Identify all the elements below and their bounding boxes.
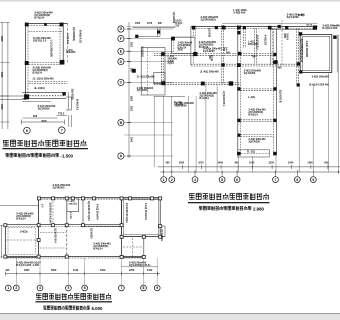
svg-text:B:4@14: B:4@14	[200, 97, 210, 100]
column B axis6 second	[237, 31, 240, 34]
hollow column C3	[65, 197, 68, 200]
column B25	[135, 35, 138, 38]
axis bubble 4 plan C	[37, 285, 43, 291]
plan A top annotation text	[34, 10, 53, 19]
plan C below text 1	[16, 262, 41, 268]
plan B ext line f	[298, 85, 300, 172]
column B26	[157, 30, 160, 33]
plan B stem top text	[244, 69, 262, 75]
svg-text:3340: 3340	[130, 137, 133, 143]
plan B left wing top line	[135, 35, 160, 37]
svg-text:1400: 1400	[218, 162, 224, 165]
plan A left dimension line inner	[7, 22, 9, 129]
svg-text:3-4(2) 200x400: 3-4(2) 200x400	[312, 76, 330, 79]
column B8	[333, 36, 336, 39]
svg-text:B:4@14 2/25 400: B:4@14 2/25 400	[309, 83, 329, 86]
column B15	[161, 81, 165, 85]
svg-text:3-4(2) 200x400: 3-4(2) 200x400	[305, 41, 308, 58]
axis bubble D plan B	[118, 59, 124, 65]
svg-text:3-4(2) 200x400x: 3-4(2) 200x400x	[144, 203, 147, 221]
plan B note	[199, 206, 264, 211]
plan B center top text	[248, 40, 258, 45]
column B notch BR	[193, 52, 197, 56]
plan B below room text 1	[312, 76, 330, 79]
svg-text:1: 1	[7, 286, 9, 290]
plan C vertical x121.6	[121, 198, 123, 257]
plan C vertical x66.8	[66, 198, 68, 257]
plan C beam y236.6	[122, 236, 165, 238]
column B14	[161, 52, 165, 56]
plan B horizontal beam H4	[191, 64, 300, 66]
plan A right beam vtext	[66, 33, 68, 44]
svg-text:770.2: 770.2	[58, 112, 65, 115]
plan B text x137 y87	[137, 87, 154, 92]
column B x279	[278, 25, 281, 28]
svg-text:5: 5	[221, 178, 223, 182]
svg-text:2@14/20: 2@14/20	[208, 28, 211, 38]
plan A mid beam	[29, 63, 62, 65]
plan B top text 1	[201, 15, 219, 22]
plan A left vertical beam	[25, 23, 28, 100]
axis bubble C plan B	[118, 79, 124, 85]
svg-text:5: 5	[67, 286, 69, 290]
svg-text:905: 905	[42, 119, 47, 123]
svg-text:7: 7	[275, 178, 277, 182]
plan C room3 vtext	[87, 201, 90, 221]
plan C left text block	[16, 213, 34, 221]
svg-text:4050: 4050	[24, 269, 30, 272]
svg-text:2250: 2250	[269, 162, 275, 165]
column A5	[24, 94, 29, 99]
svg-text:2@14/200: 2@14/200	[175, 104, 187, 107]
column B12	[201, 82, 205, 86]
footer band	[0, 314, 340, 320]
svg-text:3300: 3300	[0, 36, 3, 42]
svg-text:2@14/200: 2@14/200	[141, 46, 144, 57]
svg-text:1040: 1040	[147, 269, 153, 272]
column B V9 bottom	[297, 83, 300, 86]
svg-text:1070: 1070	[147, 23, 153, 25]
plan A left dim text 3340	[0, 72, 3, 78]
svg-text:B:4@14: B:4@14	[199, 46, 209, 49]
svg-text:JL-4(1) 200x400: JL-4(1) 200x400	[200, 71, 219, 74]
column B top extra	[243, 26, 246, 29]
axis bubble 7 plan C	[119, 285, 125, 291]
svg-text:B:4@14: B:4@14	[248, 113, 258, 116]
plan A title underline	[3, 148, 89, 150]
svg-text:200x300: 200x300	[66, 51, 76, 54]
axis bubble B plan B	[118, 120, 124, 126]
plan A left edge beam lines	[0, 96, 27, 100]
svg-text:G: G	[120, 27, 123, 31]
plan A top beam mid tick	[44, 23, 47, 26]
plan A right protrusion	[66, 92, 72, 110]
svg-text:9: 9	[312, 178, 314, 182]
plan B mid-left text block	[203, 48, 222, 54]
svg-text:2@14/200 B:4@14x: 2@14/200 B:4@14x	[49, 202, 52, 224]
plan B vertical beam x244	[244, 26, 246, 48]
svg-text:6: 6	[236, 178, 238, 182]
column B11	[273, 60, 277, 64]
plan B band vtext c	[264, 35, 267, 46]
axis bubble 5 plan C	[66, 285, 72, 291]
plan C room2b vtext	[69, 212, 72, 219]
plan B text 900b	[278, 67, 283, 70]
plan A hatched beam label	[34, 86, 45, 90]
plan C main band top beam	[5, 225, 121, 227]
plan B band text block	[199, 41, 217, 49]
plan C dim tier2	[122, 266, 158, 268]
column A3	[25, 61, 29, 65]
plan B wing text cluster	[168, 55, 178, 65]
plan A left dim ticks	[1, 23, 10, 123]
column B9	[299, 32, 302, 35]
svg-text:6.000: 6.000	[92, 306, 104, 311]
svg-text:250: 250	[222, 47, 225, 52]
svg-text:B:4@14 2: B:4@14 2	[75, 99, 78, 111]
plan B ext line axis1	[162, 96, 164, 172]
plan C bottom beam	[5, 256, 144, 258]
column A4	[60, 60, 65, 65]
svg-text:2@14/200 B:4: 2@14/200 B:4	[54, 228, 57, 244]
axis bubble E plan B	[118, 48, 124, 54]
column B23	[297, 62, 300, 65]
column B10	[237, 63, 241, 67]
svg-text:9: 9	[156, 286, 158, 290]
svg-text:1500: 1500	[135, 23, 141, 25]
svg-text:2: 2	[171, 178, 173, 182]
svg-text:TL-1(1): TL-1(1)	[247, 151, 256, 154]
plan A title	[3, 140, 86, 147]
axis bubble 6 plan A	[24, 127, 31, 134]
svg-text:3300: 3300	[130, 42, 132, 48]
hollow column C mid	[52, 224, 55, 227]
svg-text:2@14/200 B:4@14: 2@14/200 B:4@14	[125, 203, 128, 223]
column B5	[268, 26, 272, 30]
plan B wing inner box	[154, 73, 165, 84]
svg-text:1040: 1040	[288, 162, 294, 165]
plan A interior text block	[33, 36, 51, 43]
axis bubble 8 plan B	[294, 177, 300, 183]
svg-text:1140: 1140	[73, 269, 79, 272]
hollow column C19	[120, 255, 123, 258]
plan B mid vertical beam 1	[193, 29, 195, 64]
svg-text:/200: /200	[208, 55, 210, 60]
svg-text:3340: 3340	[0, 72, 3, 78]
svg-text:1500: 1500	[307, 162, 313, 165]
plan B letter dim ticks	[127, 29, 131, 156]
svg-text:JL-X(3A): JL-X(3A)	[34, 86, 45, 90]
plan A left dim text 3300	[0, 36, 3, 42]
plan B stem right outside vtext	[279, 90, 282, 103]
svg-text:405: 405	[5, 269, 10, 272]
svg-text:2@14/200 B: 2@14/200 B	[279, 90, 282, 103]
plan B top right text	[306, 23, 340, 30]
svg-text:1500: 1500	[179, 162, 185, 165]
svg-text:250 2@ 2.5: 250 2@ 2.5	[33, 39, 47, 43]
plan B bubble stems	[164, 172, 314, 177]
plan B letter dim line	[128, 22, 130, 158]
plan B vertical beam x254	[255, 29, 257, 65]
plan B top text 2	[233, 8, 247, 15]
plan C dim numbers	[5, 269, 153, 272]
hollow column C17	[37, 255, 40, 258]
plan B stem low text	[248, 138, 266, 144]
plan C room1	[39, 198, 67, 225]
plan B ext line i	[338, 35, 340, 172]
axis bubble G plan B	[118, 26, 124, 32]
svg-text:2@14/200x: 2@14/200x	[160, 229, 163, 242]
plan C left edge line	[0, 205, 39, 207]
svg-text:B:4@14: B:4@14	[93, 247, 103, 250]
column B16	[237, 87, 240, 90]
plan A text under beam	[38, 104, 56, 111]
plan B top-left notch room	[172, 37, 195, 53]
plan B axis4 text	[208, 55, 213, 62]
column B stem right H3	[273, 53, 276, 56]
plan B wing beam upper	[154, 53, 276, 55]
plan B beam JL label	[175, 102, 194, 108]
plan B text 700	[252, 55, 257, 58]
svg-text:2@14/200: 2@14/200	[53, 186, 65, 190]
svg-text:2250: 2250	[129, 269, 135, 272]
plan C room2 text	[69, 200, 78, 205]
plan A right side text	[66, 49, 76, 54]
plan C below text 2	[129, 262, 151, 268]
svg-text:200x300: 200x300	[69, 203, 78, 205]
svg-text:7: 7	[120, 286, 122, 290]
plan C hall vtext	[90, 228, 93, 239]
svg-text:B:4@14 2/25 -1.500: B:4@14 2/25 -1.500	[16, 264, 39, 267]
plan B wing text lower	[174, 101, 184, 106]
plan B dim line upper	[158, 166, 340, 168]
axis bubble 8 plan C	[141, 285, 147, 291]
column B room bottom-left	[299, 70, 302, 73]
svg-text:4: 4	[39, 286, 41, 290]
svg-text:900: 900	[324, 162, 329, 165]
svg-text:2@14/200: 2@14/200	[248, 141, 260, 144]
column B6	[285, 26, 288, 29]
svg-text:2@14/200 B:4: 2@14/200 B:4	[222, 91, 225, 107]
hollow column C12	[37, 224, 40, 227]
axis bubble 9 plan B	[310, 177, 316, 183]
plan C right notch	[160, 226, 165, 237]
plan C room4 vtext	[125, 203, 128, 223]
plan B wing thin line	[154, 95, 185, 97]
plan A hatched beam	[22, 93, 66, 99]
hollow column C13	[65, 224, 68, 227]
plan A right vertical text upper	[72, 27, 75, 41]
svg-text:650: 650	[33, 115, 38, 118]
axis bubble 2 plan B	[169, 177, 175, 183]
plan A thin line under beam	[22, 101, 50, 103]
svg-text:4@14: 4@14	[306, 23, 313, 26]
plan B center text2	[222, 47, 227, 52]
plan B wing top stub beam	[158, 28, 161, 37]
svg-text:2@14: 2@14	[168, 62, 175, 65]
plan C mid dashed line a	[40, 232, 66, 234]
plan B ext line e	[252, 156, 254, 172]
hollow column C2	[52, 197, 55, 200]
plan C vertical x38.6	[38, 198, 40, 257]
plan B stem ext right	[275, 156, 277, 172]
svg-text:B:4@14: B:4@14	[33, 71, 43, 75]
plan C room2	[67, 198, 79, 211]
plan C room1 vtext	[49, 202, 52, 224]
svg-text:F: F	[120, 37, 122, 41]
plan B top text 3	[287, 13, 305, 20]
svg-text:2: 2	[15, 286, 17, 290]
plan B top main beam	[191, 27, 318, 29]
column B band extra	[221, 63, 224, 66]
svg-text:B:4@14 2/25: B:4@14 2/25	[323, 27, 338, 30]
footer line	[0, 312, 340, 314]
svg-text:-1.500: -1.500	[61, 153, 74, 158]
column B7	[313, 26, 317, 30]
svg-text:6: 6	[84, 286, 86, 290]
axis bubble 7 plan A	[59, 127, 66, 134]
svg-text:900: 900	[278, 67, 283, 70]
plan B stem L label	[248, 96, 255, 99]
svg-text:8: 8	[296, 178, 298, 182]
plan B vertical beam V9	[297, 29, 299, 86]
hollow column C11	[4, 224, 7, 227]
svg-text:2@14/200: 2@14/200	[90, 228, 93, 239]
svg-text:7: 7	[61, 129, 63, 133]
plan A right outer line	[67, 23, 69, 64]
svg-text:L-4 2x: L-4 2x	[69, 212, 72, 219]
hollow column C5	[82, 197, 85, 200]
hollow column C7	[120, 197, 123, 200]
plan C room5 text	[93, 242, 111, 250]
svg-text:L-1(1) 200x300: L-1(1) 200x300	[49, 40, 52, 58]
svg-text:8: 8	[143, 286, 145, 290]
column B21	[237, 152, 241, 156]
plan B far right text	[298, 14, 305, 17]
plan B dim line block	[132, 69, 136, 73]
svg-text:3-4(2) 400: 3-4(2) 400	[233, 10, 246, 14]
plan B right room inner text	[300, 39, 308, 63]
axis bubble 1 plan C	[5, 285, 11, 291]
column B stem top	[238, 52, 241, 55]
plan B letter dim rot text	[130, 42, 133, 143]
plan A beam dash under top	[28, 31, 62, 33]
hollow column C16	[4, 255, 7, 258]
plan A lower beam	[29, 82, 68, 84]
plan B band text mid	[226, 51, 231, 54]
plan B top dim line	[133, 27, 175, 29]
axis bubble 1 plan B	[161, 177, 167, 183]
plan B band vtext b	[256, 35, 259, 51]
plan B wing vertical text	[141, 46, 144, 57]
svg-text:900: 900	[226, 51, 231, 54]
plan A sub dim line left	[22, 115, 57, 118]
plan A top beam	[25, 23, 67, 25]
plan B top left vertical text	[172, 12, 175, 24]
plan C mid dashed line b	[40, 247, 66, 249]
hollow column C15	[120, 224, 123, 227]
plan B right room	[300, 35, 332, 73]
plan A left dim text 1500	[0, 104, 3, 110]
plan B stem rung 2	[240, 120, 273, 122]
plan C inroom text	[20, 230, 28, 233]
plan B dim ticks	[182, 165, 328, 169]
svg-text:1140: 1140	[249, 162, 255, 165]
column B17	[273, 87, 276, 90]
plan B dim numbers	[166, 162, 330, 165]
svg-text:B:4@14: B:4@14	[16, 218, 26, 221]
plan A right vertical text upper2	[79, 30, 82, 44]
plan C top beam	[39, 198, 160, 200]
plan B left wing room	[141, 48, 165, 96]
svg-text:2@14/200(2) B:4@14: 2@14/200(2) B:4@14	[300, 39, 303, 63]
plan C room1 vtext2	[41, 204, 44, 208]
plan C left beam vertical	[4, 225, 6, 258]
column B1	[192, 26, 196, 30]
column A1	[25, 23, 29, 27]
plan B right room top beam	[270, 29, 314, 31]
plan C room5	[122, 237, 144, 258]
plan B left small text	[178, 42, 193, 52]
plan A left dimension line outer	[1, 22, 3, 129]
axis bubble 6 plan C	[82, 285, 88, 291]
plan B ext line axis2	[171, 96, 173, 172]
plan C note	[44, 306, 104, 311]
plan C title underline	[36, 301, 113, 303]
hollow column C9	[151, 197, 154, 200]
column B notch TL	[171, 37, 175, 41]
plan A interior vertical text	[49, 40, 52, 58]
axis bubble 7 plan B	[273, 177, 279, 183]
plan B top beam upper line	[222, 22, 318, 24]
plan B stem ext left	[237, 156, 239, 172]
svg-text:450: 450	[166, 162, 171, 165]
svg-text:B:4@14 2/2: B:4@14 2/2	[79, 30, 82, 44]
plan C room4 vtext2	[144, 203, 147, 221]
svg-text:4: 4	[194, 178, 196, 182]
hollow column C20	[142, 255, 145, 258]
svg-text:2@14/200: 2@14/200	[71, 89, 74, 101]
plan C bubble stems	[16, 258, 157, 285]
axis bubble 2 plan C	[13, 285, 19, 291]
plan B dashed vertical V8	[281, 20, 283, 65]
plan B lower dim ticks	[164, 170, 339, 174]
plan C dim line	[5, 273, 160, 275]
hollow column C18	[65, 255, 68, 258]
plan C dim ticks	[5, 272, 158, 276]
svg-text:3900: 3900	[130, 96, 132, 102]
plan A lower beam label	[33, 77, 55, 81]
plan B ext line g	[312, 85, 314, 172]
plan B stem TL label	[247, 151, 256, 154]
hollow column C1	[38, 197, 41, 200]
plan C right vtext	[160, 229, 163, 242]
plan C room4	[122, 198, 161, 237]
axis bubble 9 plan C	[154, 285, 160, 291]
top border	[0, 0, 340, 2]
plan C title	[36, 293, 111, 299]
plan C left room inner dashed rect	[8, 228, 36, 255]
plan A sub dim line right	[57, 112, 68, 115]
hollow column C23	[159, 235, 162, 238]
svg-text:B:4@14: B:4@14	[34, 16, 44, 20]
svg-text:700: 700	[252, 55, 257, 58]
plan B stem left beam	[238, 25, 241, 155]
plan B title	[189, 193, 269, 200]
plan B far left vtext	[175, 20, 183, 28]
svg-text:2@14/200(2): 2@14/200(2)	[201, 17, 216, 21]
hollow column C21	[120, 235, 123, 238]
